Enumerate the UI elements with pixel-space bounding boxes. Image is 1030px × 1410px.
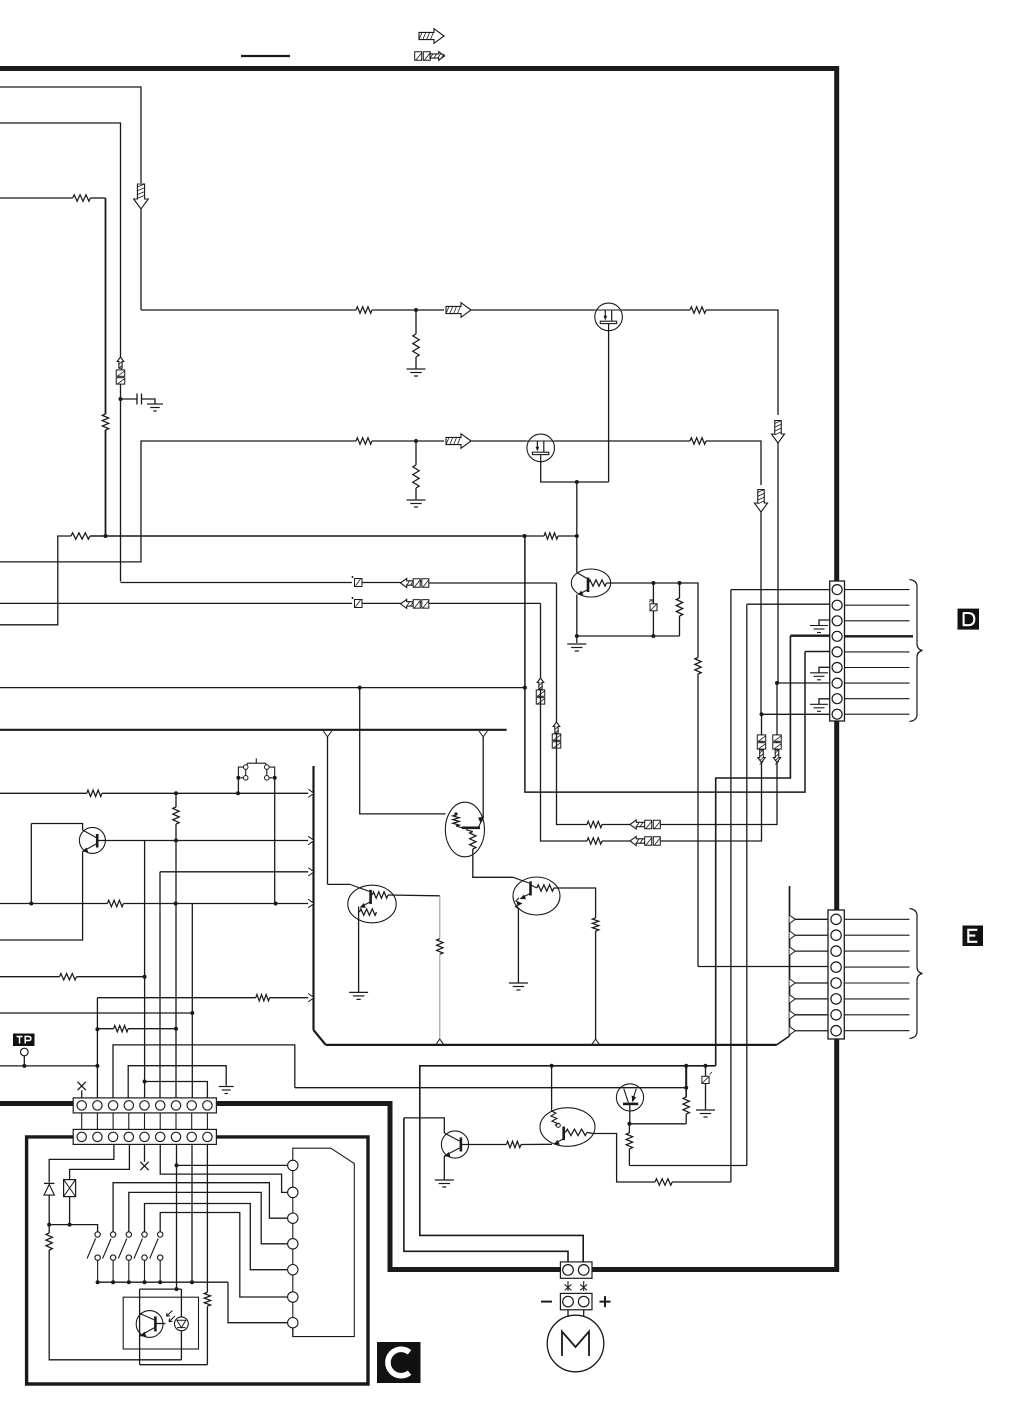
resistor R21 (C box left) xyxy=(46,1233,52,1250)
photo-interrupter PI1 outline xyxy=(123,1297,198,1349)
junction: switch right terminal xyxy=(273,776,277,780)
junction: y1088 line end xyxy=(684,1086,688,1090)
wire: E pin8 row xyxy=(795,1030,828,1032)
hatched arrow up (line2 net) xyxy=(537,678,544,689)
bus wall x=313.5 (vertical collector rail) xyxy=(312,766,314,1030)
wire: R22 to photo box bottom wire xyxy=(206,1306,208,1365)
junction: X1 chain node xyxy=(68,1223,72,1227)
wire: strip c3 to diode D1 xyxy=(49,1144,114,1182)
junction: row1 gate divider xyxy=(414,308,418,312)
connector D pin 8 xyxy=(832,694,842,704)
wire: row2 right corner down xyxy=(706,441,761,485)
resistor R3 (row1) xyxy=(356,307,372,313)
wire: y977 line to column xyxy=(77,976,145,978)
junction: y793 to switch xyxy=(236,791,240,795)
resistor (Q8 R1 internal) xyxy=(537,885,554,891)
connector E rows (right side) xyxy=(844,918,909,920)
junction: column x176 at y903 xyxy=(174,902,178,906)
wire: Q2 drain right xyxy=(622,309,690,311)
wire: y536 rail xyxy=(90,535,525,537)
sub-board outline C (thick box) xyxy=(27,1137,368,1384)
wire: line1 right segment xyxy=(429,582,557,584)
resistor (Q4 base, internal) xyxy=(589,580,607,586)
junction: branch to Q7 base xyxy=(358,686,362,690)
wire: wall 45-degree bend into line A xyxy=(314,1030,326,1045)
resistor R25 xyxy=(683,1097,689,1114)
junction: line B to R25 chain xyxy=(684,1064,688,1068)
wire: D pin9 row xyxy=(762,713,830,715)
junction: rail at Q4 collector xyxy=(575,534,579,538)
junction: SW2 on common line xyxy=(111,1280,115,1284)
ground (row1 divider) xyxy=(407,369,426,376)
wire: left input 3 xyxy=(0,197,73,199)
pad P1 xyxy=(288,1160,298,1170)
resistor R5 (row1 right) xyxy=(690,307,706,313)
wire: y1013 line from left edge xyxy=(0,1012,192,1014)
junction: cap branch xyxy=(119,397,123,401)
junction: y903 to switch branch xyxy=(274,902,278,906)
pad column (C box right, 7 pads) xyxy=(293,1148,355,1336)
signal name boxes (line1) xyxy=(413,579,420,588)
signal name boxes (line2 net) xyxy=(536,690,545,696)
wire: row1 left segment xyxy=(141,309,356,311)
wire: SW5 top bridge to pad P6 xyxy=(160,1213,287,1298)
pad P5 xyxy=(288,1265,298,1275)
wire: D pin1 net lower route xyxy=(672,1181,731,1183)
entry triangle: y903 line xyxy=(308,899,314,907)
wire: R28 to Q9 emitter xyxy=(521,1143,552,1145)
signal name boxes (D pin7 net) xyxy=(645,820,652,829)
switch SW3 (C box) xyxy=(126,1232,131,1237)
wire: base node to R25 bottom xyxy=(629,1123,686,1125)
wire: column x144 (y840 down to strip) xyxy=(144,841,146,1098)
wire: Q7 R1 out to line-A drop xyxy=(388,894,440,897)
wire: down to E pin4 row xyxy=(697,674,699,967)
connector CN-A (upper 9-pin strip) xyxy=(73,1098,216,1113)
connector D body xyxy=(830,581,845,721)
wire: Q2 source down to common source node xyxy=(608,331,610,482)
hatched arrow down (D pin7 riser) xyxy=(773,750,780,763)
wire: R27 to Q9 output xyxy=(593,1134,655,1183)
wire: to pad P1 xyxy=(177,1164,288,1166)
label C (block marker) xyxy=(377,1342,421,1383)
hatched arrow down (row2 to connector D net) xyxy=(754,490,767,513)
wire: switch left terminal to y793 xyxy=(237,778,239,794)
wire: column x176 down to connector strip xyxy=(175,824,177,1098)
wire: D pin2 net riser xyxy=(746,604,748,1165)
Q4 internal symbol xyxy=(577,573,588,595)
signal name boxes (line1 net) xyxy=(552,734,561,740)
wire: R11 to emitter line xyxy=(679,616,681,636)
no-connect X above strip pin1 xyxy=(78,1082,86,1090)
wire: line2 right segment xyxy=(429,602,541,604)
resistor R9 (y536 rail left) xyxy=(71,533,90,539)
resistor (Q9 R1 internal) xyxy=(566,1129,588,1135)
wire: y998 line xyxy=(97,997,255,999)
wire: strip c7 column down xyxy=(176,1144,178,1289)
entry triangle: y840 line xyxy=(308,836,314,844)
entry triangle: R24 into line A xyxy=(591,1039,599,1045)
wire: motor net from Q5 collector xyxy=(404,1118,568,1262)
entry triangle: E pin3 xyxy=(790,947,796,955)
ground (Q7 emitter) xyxy=(349,992,368,999)
wire: line1 net down xyxy=(556,583,558,722)
wire: E pin7 row xyxy=(795,1014,828,1016)
wire: source node to y536 rail xyxy=(576,482,578,536)
light arrows (LED to Q10) xyxy=(167,1311,173,1317)
R25 chain (line B to y1088) xyxy=(685,1066,687,1088)
wire: E pin2 row xyxy=(795,934,828,936)
wire: column x176 top xyxy=(175,793,177,807)
resistor R6 (row2) xyxy=(356,438,372,444)
wire: D pin1 row xyxy=(731,589,830,591)
connector E body xyxy=(828,910,844,1039)
entry triangle: y872 line xyxy=(308,868,314,876)
connector E pin 6 xyxy=(831,994,841,1004)
entry triangle: R23 into line A xyxy=(436,1039,444,1045)
hatched arrow right (row1 signal) xyxy=(446,303,471,318)
wire: line1 left segment xyxy=(121,582,353,584)
entry triangle: E pin6 xyxy=(790,995,796,1003)
wire: arrow to MOSFET row 1 xyxy=(140,209,142,310)
ground (D pin3) xyxy=(819,620,830,626)
wire: row1 divider down xyxy=(415,310,417,334)
pad P6 xyxy=(288,1292,298,1302)
wire: E pin4 row (from R12 net) xyxy=(698,966,828,968)
wire: LED anode lead xyxy=(180,1289,182,1317)
wire: Q3 source down and right xyxy=(541,462,609,482)
wire: heavy vertical x=105 xyxy=(105,198,107,414)
wire: left edge feed to y536 rail xyxy=(0,536,71,625)
wire: strip c8 column to common line xyxy=(191,1144,193,1282)
wire: strip c9 column down xyxy=(206,1144,208,1292)
wire: bus drop to Q7 collector line xyxy=(327,737,329,885)
wire: arrow to MOSFET Q2 gate xyxy=(471,309,595,311)
wire: D pin5 row xyxy=(805,651,830,653)
wire: strip c4 to component X1 xyxy=(70,1144,130,1179)
wire: R25 to base node xyxy=(685,1114,687,1124)
junction: column x144 at y1081 xyxy=(143,1080,147,1084)
entry triangle: E pin7 xyxy=(790,1011,796,1019)
wire: hook down to y903 xyxy=(30,824,32,904)
connector D pin 3 xyxy=(832,616,842,626)
resistor R20 (between columns) xyxy=(114,1026,129,1032)
connector (motor side, 2-pin) xyxy=(560,1293,592,1309)
connector E pin 2 xyxy=(831,930,841,940)
label + (motor plus) xyxy=(600,1296,611,1307)
resistor (Q7 R1 internal) xyxy=(372,892,388,898)
wire: D pin5 net (y536 rail to pin5) xyxy=(525,536,805,792)
resistor R16 (column x176) xyxy=(173,807,179,824)
wire: line1 to arrow xyxy=(362,582,413,584)
wire: bus drop to Q7 xyxy=(328,883,351,885)
pad P3 xyxy=(288,1213,298,1223)
hatched arrow right (row2 signal) xyxy=(446,434,471,449)
capacitor C3 branch (line B to ground) xyxy=(705,1066,707,1076)
pad P7 xyxy=(288,1318,298,1328)
wire: Q8 output to R24 xyxy=(554,888,596,918)
entry triangle: bus to Q7-branch xyxy=(323,731,331,737)
junction: Q4 node / cap branch xyxy=(651,581,655,585)
wire: E pin6 row xyxy=(795,998,828,1000)
signal name boxes (top) xyxy=(415,52,422,61)
wire: D pin4 net to motor connector pin R xyxy=(420,1066,716,1262)
hatched arrow down (row1 to connector D net) xyxy=(771,421,784,444)
wire: y688 branch to Q6 base xyxy=(360,688,446,814)
connector D pin 6 xyxy=(832,663,842,673)
resistor (Q6 R2 internal) xyxy=(470,832,476,850)
junction: column c7 to pad P1 xyxy=(175,1163,179,1167)
resistor R26 (base node down) xyxy=(626,1133,632,1149)
wire: Q5 emitter to ground xyxy=(443,1156,445,1180)
wire: line B to Q9 top xyxy=(551,1066,553,1109)
resistor R19 (y998 line) xyxy=(256,995,270,1001)
junction: row2 gate divider xyxy=(414,439,418,443)
wire: R14 to arrow xyxy=(602,840,630,842)
signal name boxes (D pin9 riser) xyxy=(757,735,766,741)
label E (block marker) xyxy=(963,926,984,947)
transistor Q4 (digital transistor with built-in resistors) xyxy=(571,569,610,597)
wire: Q1 emitter to left edge xyxy=(0,852,83,941)
wire: line2 to arrow xyxy=(362,602,413,604)
ground (D pin8) xyxy=(819,699,830,705)
wire: SW2 top bridge to pad P3 xyxy=(113,1183,288,1232)
resistor R12 (net to connector E pin4) xyxy=(695,658,701,675)
connector D pin 2 xyxy=(832,600,842,610)
wire: D pin4 row (thick) xyxy=(790,635,829,637)
wire: Q8 emitter to ground xyxy=(517,909,519,984)
junction: Q8b base node xyxy=(627,1122,631,1126)
resistor (Q6 R1 internal) xyxy=(453,815,459,826)
hatched arrow up (line1 net) xyxy=(553,722,560,733)
resistor (Q8 R2 internal, to ground) xyxy=(516,898,522,909)
wire: column x97 down to strip xyxy=(96,998,98,1098)
wire: D pin4 net (thick) riser and route xyxy=(716,636,791,1066)
wire: left input 1 to down-arrow xyxy=(0,87,141,183)
wire: heavy vertical to y536 node xyxy=(105,430,107,536)
wire: Q8b base down xyxy=(629,1104,631,1124)
junction: column x192 on common line xyxy=(190,1280,194,1284)
wire: net to D pin9 riser xyxy=(661,714,762,841)
ground (D pin6) xyxy=(819,667,830,673)
wire: wall bend into line A xyxy=(777,1036,790,1045)
wire: line2 net corner to resistor xyxy=(541,690,588,842)
connector D pin 1 xyxy=(832,585,842,595)
brace (connector D group) xyxy=(910,580,923,722)
phototransistor Q10 xyxy=(136,1311,163,1338)
wire: row2 to arrow xyxy=(372,440,444,442)
hatched arrow up on left vertical xyxy=(117,357,124,368)
wire: column x113 up and over to x295 xyxy=(113,1045,295,1098)
junction: y793 to column xyxy=(174,791,178,795)
switch SW4 (C box) xyxy=(142,1232,147,1237)
resistor R22 (C box right) xyxy=(204,1292,210,1306)
no-connect X below strip (column x144) xyxy=(140,1162,148,1170)
bus wire y=730 (supply rail) xyxy=(0,729,507,731)
MOSFET Q2 xyxy=(595,303,623,331)
motor M1 xyxy=(547,1315,604,1372)
wire: switch common line xyxy=(98,1281,228,1283)
transistor Q1 (NPN) xyxy=(79,827,105,853)
wire: E pin3 row xyxy=(795,950,828,952)
wires: strip interconnect columns xyxy=(81,1113,83,1130)
entry triangle: y998 line xyxy=(308,994,314,1002)
resistor R23 (line-A drop) xyxy=(437,939,443,955)
wire: Q3 drain right xyxy=(555,440,691,442)
wire: down to D pin7 node xyxy=(777,443,779,683)
resistor R13 (line1 net) xyxy=(587,821,602,827)
off-page arrow (top right-pointing) xyxy=(419,29,444,44)
transistor Q5 (NPN) xyxy=(441,1131,468,1158)
hatched arrow left (line2) xyxy=(401,599,417,608)
wire: emitter line horizontal xyxy=(577,635,680,637)
ground (row2 divider) xyxy=(407,500,426,507)
wire: E pin1 row xyxy=(795,918,828,920)
wire: rail segment xyxy=(525,535,545,537)
resistor R27 (D pin1 net) xyxy=(655,1179,672,1185)
junction: source node xyxy=(575,480,579,484)
junction: column x176 at y840 xyxy=(174,839,178,843)
pad P2 xyxy=(288,1187,298,1197)
wire: y793 line left xyxy=(0,792,87,794)
wire: X stem to strip xyxy=(81,1091,83,1098)
hatched arrow down (net to row 1) xyxy=(134,184,149,209)
wire: R13 to arrow xyxy=(602,824,630,826)
junction: Q4 emitter ground node xyxy=(575,634,579,638)
junction: TP on line xyxy=(22,1064,26,1068)
junction: column c7 on photo box top wire xyxy=(175,1287,179,1291)
wire: Q10 base stub (open) xyxy=(155,1323,165,1325)
wire: y903 line left xyxy=(0,903,107,905)
connector E pin 4 xyxy=(831,962,841,972)
junction: hook at y903 xyxy=(29,902,33,906)
wire: line1 net corner to resistor xyxy=(557,734,588,825)
wire: SW3 top bridge to pad P4 xyxy=(129,1192,288,1243)
junction: column x176 at y1029 xyxy=(174,1027,178,1031)
MOSFET Q3 xyxy=(527,434,555,462)
component X1 (boxed crystal/varistor) xyxy=(64,1180,76,1197)
wire: resistor branch down xyxy=(679,583,681,598)
wire: y977 line left xyxy=(0,976,60,978)
connector E pin 7 xyxy=(831,1010,841,1020)
transistor Q8 (digital) xyxy=(513,877,560,915)
wire: Q4 node to right corner down xyxy=(680,583,699,658)
label D (block marker) xyxy=(958,609,980,630)
wire: common line to pad P7 xyxy=(228,1282,288,1323)
wire: D1 to node xyxy=(48,1195,50,1225)
resistor R7 (row2 to ground) xyxy=(413,465,419,488)
connector D pin 5 xyxy=(832,647,842,657)
wire: y1088 line (to Q8 and beyond) xyxy=(295,1087,686,1089)
wire: TP stem xyxy=(23,1056,25,1066)
connector D rows (right side) xyxy=(845,589,910,591)
connector D pin 4 xyxy=(832,631,842,641)
wire: Q5 base to R28 xyxy=(461,1144,507,1146)
junction: column x192 at y1013 xyxy=(190,1011,194,1015)
junction: D pin7 node xyxy=(775,681,779,685)
wire: strip c5 stub to X xyxy=(144,1144,146,1161)
wire: bold stub xyxy=(685,1088,687,1097)
hatched arrow left (line1) xyxy=(401,578,417,587)
wire: Q1 collector hook xyxy=(31,824,82,831)
ground (jog line) xyxy=(219,1087,234,1094)
entry triangle: E pin1 xyxy=(790,915,796,923)
resistor R1 (left input 3) xyxy=(73,195,91,201)
junction: heavy vertical joins rail xyxy=(104,534,108,538)
ground (Q4 emitter) xyxy=(567,644,586,651)
wire: left vertical continues to line 1 xyxy=(120,385,122,582)
signal name boxes (left vertical) xyxy=(116,370,125,376)
wire: cap to emitter line xyxy=(652,611,654,636)
wire: y1081 link to column x207 xyxy=(145,1082,208,1098)
junction: SW3 on common line xyxy=(127,1280,131,1284)
junction: diode chain node xyxy=(47,1223,51,1227)
wire: line2 net down xyxy=(540,603,542,678)
junction: rail to pin5 net xyxy=(523,534,527,538)
wire: row2 divider down xyxy=(415,441,417,465)
brace (connector E group) xyxy=(910,909,923,1039)
wire: node line to switch SW1 xyxy=(49,1225,97,1232)
wire: R24 down to line A xyxy=(595,931,597,1039)
connector D pin 9 xyxy=(832,709,842,719)
bus wall x=790 (E connector feed) xyxy=(789,886,791,1036)
wire: node segment xyxy=(653,582,679,584)
wire: left input 2 vertical xyxy=(0,123,121,357)
resistor R28 (Q5 base) xyxy=(506,1141,521,1147)
wire: row2 feed from left edge xyxy=(0,441,356,562)
wire: net to D pin7 riser xyxy=(661,683,778,825)
junction: SW5 on common line xyxy=(158,1280,162,1284)
ground (Q5 emitter) xyxy=(435,1180,454,1187)
wire: row1 right corner down xyxy=(706,310,778,415)
wire: SW4 top bridge to pad P5 xyxy=(145,1204,288,1270)
capacitor C2 (small, Q4 node to emitter line) xyxy=(652,583,654,604)
junction: D pin9 node xyxy=(760,712,764,716)
switch SW2 (C box) xyxy=(110,1232,115,1237)
junction: column x97 at test-point line xyxy=(95,1064,99,1068)
connector E pin 8 xyxy=(831,1026,841,1036)
wire: Q1 base lead xyxy=(97,840,105,842)
junction: pin5 net crossing xyxy=(523,686,527,690)
resistor R17 (y903 line) xyxy=(107,900,123,906)
wire: Q4 collector lead up xyxy=(576,536,578,573)
wire: cap to ground xyxy=(142,399,156,404)
wire: cap to ground xyxy=(705,1084,707,1111)
connector D pin 7 xyxy=(832,678,842,688)
junction: line B to cap/ground branch xyxy=(704,1064,708,1068)
wire: motor leads xyxy=(568,1310,584,1317)
test point TP terminal xyxy=(21,1048,29,1056)
wire: strip c6 to pad P2 jog xyxy=(160,1144,287,1192)
label - (motor minus) xyxy=(541,1301,552,1303)
wire: R26 to D pin2 route xyxy=(628,1149,630,1166)
wire: R19 to wall xyxy=(270,997,309,999)
wire: y872 line xyxy=(160,871,308,873)
wire: emitter to ground xyxy=(576,636,578,643)
connector E pin 1 xyxy=(831,914,841,924)
wire: column x160 down to strip xyxy=(159,872,161,1098)
wire: D pin2 net horizontal xyxy=(629,1165,746,1167)
wire: Q6 collector stub xyxy=(482,814,484,818)
signal name boxes (line2) xyxy=(413,600,420,609)
resistor R2 (on heavy vertical) xyxy=(102,414,108,430)
test point TP label xyxy=(13,1034,35,1047)
wire: resistor to thick vertical xyxy=(90,197,105,199)
wire: line-A drop (light grey) with resistor xyxy=(439,896,441,939)
wire: node to R21 xyxy=(48,1225,50,1233)
entry triangle: E pin5 xyxy=(790,979,796,987)
wire: D pin7 row xyxy=(777,682,830,684)
